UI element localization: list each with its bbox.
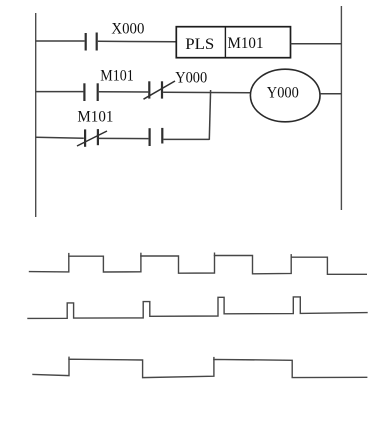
wire rung1 right	[291, 43, 342, 45]
box divider	[224, 27, 226, 58]
wire rung3 left	[36, 136, 84, 139]
NC slash M101	[77, 131, 107, 146]
contact rung3 second	[150, 128, 163, 146]
wire rung3 right	[163, 138, 209, 140]
wire rung2 mid	[99, 91, 149, 93]
wire rung2 left	[36, 91, 84, 93]
svg-text:M101: M101	[77, 108, 113, 125]
wire rung3 mid	[99, 137, 148, 139]
wire rung1 mid	[98, 40, 177, 43]
coil Y000 ellipse	[250, 69, 320, 122]
svg-text:M101: M101	[228, 35, 264, 52]
NC contact M101 rung3	[85, 129, 98, 147]
svg-text:Y000: Y000	[267, 85, 299, 102]
wire coil to rail	[320, 93, 341, 95]
contact X000	[86, 33, 97, 51]
svg-text:M101: M101	[100, 67, 134, 84]
svg-text:Y000: Y000	[175, 70, 207, 87]
contact M101 rung2	[84, 83, 97, 101]
waveform Y000	[33, 357, 367, 377]
svg-text:PLS: PLS	[185, 36, 214, 53]
left power rail	[35, 13, 37, 217]
rising edge overshoot ticks	[68, 254, 70, 257]
PLS function box	[176, 27, 290, 58]
wire rung1 left	[36, 40, 85, 42]
NC slash Y000	[144, 81, 176, 99]
rising edge overshoot ticks	[68, 357, 70, 359]
wire rung2 to coil	[163, 91, 250, 94]
waveform M101 pulses	[28, 297, 367, 319]
waveform X000	[30, 253, 367, 274]
NC contact Y000	[149, 81, 162, 98]
right power rail	[340, 6, 342, 210]
junction connector rung3 to rung2	[209, 90, 210, 140]
svg-text:X000: X000	[111, 21, 144, 38]
